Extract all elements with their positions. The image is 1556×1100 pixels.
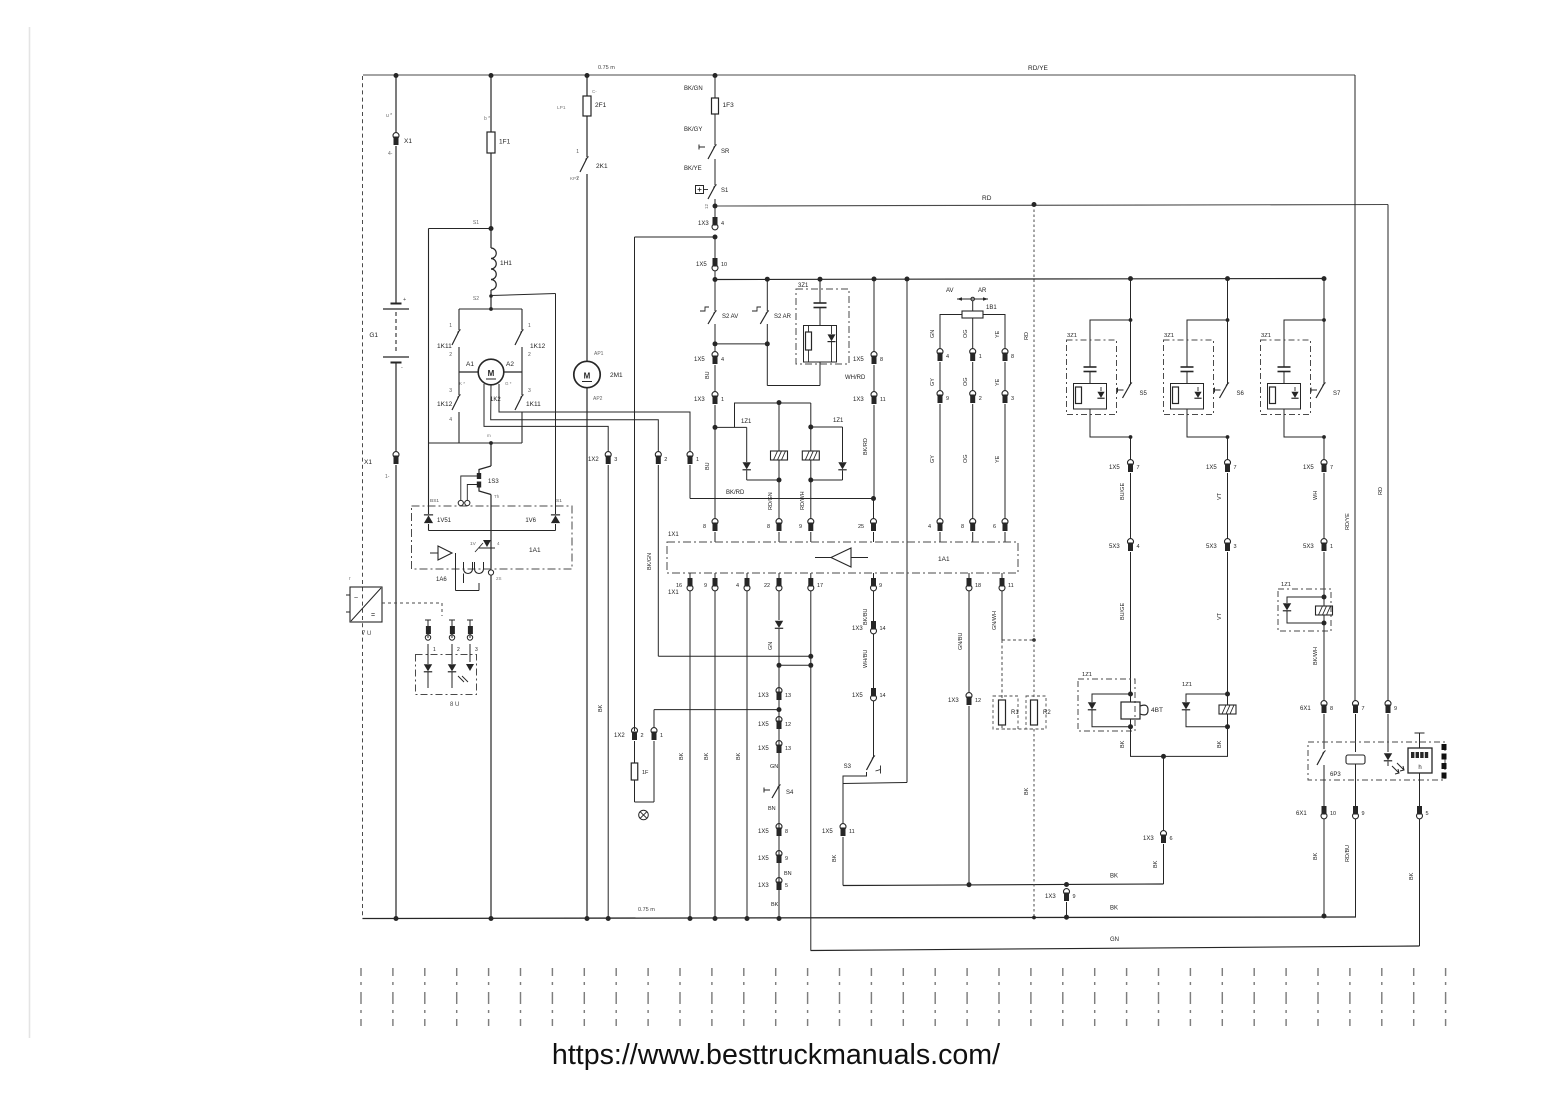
svg-text:R2: R2 [1043,710,1051,716]
svg-text:RD: RD [1378,487,1384,495]
wire 874 to TA1 [873,499,875,520]
svg-text:9: 9 [1362,811,1365,817]
svg-text:AV: AV [946,288,954,294]
wire suppressor bottom link [767,385,820,387]
wire dashed RD drop [1033,205,1035,701]
wire bridge bottom [429,442,523,444]
connector X1 pin2 [393,452,399,458]
svg-text:1Z1: 1Z1 [741,419,752,425]
svg-text:RD/YE: RD/YE [1345,513,1351,530]
svg-text:X1: X1 [404,138,412,145]
diode plug D1 [424,664,432,671]
wire S7 main [1323,279,1325,384]
resistor R2 [1026,696,1046,729]
connector 1X5-8 [871,352,877,358]
svg-text:BS1: BS1 [430,498,439,504]
svg-text:1X5: 1X5 [696,262,707,268]
svg-text:1X3: 1X3 [1045,894,1056,900]
svg-text:RD/GN: RD/GN [768,492,774,510]
svg-text:2S: 2S [496,576,502,581]
horn 1Z1 box [1078,679,1135,731]
wire 1324 to 6P3 [1323,714,1325,749]
node bus S7 [1322,276,1327,281]
wire battery column mid [395,146,397,303]
thyristor 1V51 [428,443,430,514]
wire meter stub top [1419,733,1421,748]
wire S3 to link [843,772,867,784]
sense bushing a [458,500,463,505]
wire relay2 merge [1164,727,1228,757]
switch S7 [1311,389,1317,391]
svg-text:GN: GN [768,642,774,650]
svg-text:1X5: 1X5 [758,746,769,752]
svg-text:1X5: 1X5 [694,357,705,363]
wire brush sense 1 [499,384,690,452]
svg-text:8: 8 [1330,706,1333,712]
svg-text:BU: BU [705,371,711,379]
connector 6X1-7 [1353,701,1359,707]
charge socket 8U box [416,655,477,695]
motor 2M1 [574,361,600,387]
svg-text:BK/YE: BK/YE [684,166,702,172]
svg-text:10: 10 [721,262,727,268]
connector 1X3-11 [871,392,877,398]
svg-text:1: 1 [449,323,452,329]
svg-text:1X5: 1X5 [822,829,833,835]
wire 1S3 sense b [467,485,479,501]
connector 6X1-9b [1355,764,1357,806]
connector 5X3-4 [1128,539,1134,545]
wire 1388 to 6P3 [1387,714,1389,752]
connector 1X5-8b [776,824,782,830]
connector 1X5 s7 [1321,460,1327,466]
wire 1355 to 6P3 [1355,714,1357,752]
svg-text:RD/WH: RD/WH [800,491,806,510]
svg-text:GN: GN [770,764,778,770]
svg-text:BK: BK [1153,860,1159,868]
svg-text:8: 8 [703,524,706,530]
svg-text:2M1: 2M1 [610,372,623,379]
svg-text:1X5: 1X5 [1206,465,1217,471]
wire S7 cap link [1284,320,1324,367]
wire dashed 1002 to R1 [1001,640,1003,700]
node RD junction [713,204,718,209]
wire control bus [715,279,1324,280]
wire armature line A1-A2 [459,371,479,373]
svg-text:1Z1: 1Z1 [1182,682,1192,688]
svg-text:AP1: AP1 [594,351,604,357]
wire 2M1 to bus [586,388,588,919]
svg-text:1Z1: 1Z1 [833,418,844,424]
wire to bus [714,271,716,280]
svg-text:BK/RD: BK/RD [726,490,745,496]
connector 1X5-14 [871,688,876,697]
svg-text:GN/BU: GN/BU [958,633,964,650]
svg-text:3Z1: 3Z1 [1067,333,1077,339]
svg-text:GY: GY [930,455,936,463]
node left branch junction [713,235,718,240]
wire meter to GN [1419,819,1421,946]
svg-text:BK: BK [832,854,838,862]
svg-text:1: 1 [660,733,663,739]
connector 1X1-8 top [712,519,718,525]
wire s7 col mid [1323,473,1325,539]
wire S2AR lower [766,324,768,344]
connector 1X3-13 [776,688,782,694]
wire 1324 to bus [1323,819,1325,916]
svg-text:RD/BU: RD/BU [1345,845,1351,862]
wire S5 bottom link [1090,409,1131,437]
svg-text:WH/RD: WH/RD [845,375,866,381]
connector pot row2 b [970,391,976,397]
svg-text:1X3: 1X3 [758,693,769,699]
svg-text:BK/WH: BK/WH [1313,647,1319,665]
svg-text:3: 3 [475,647,478,653]
node merge [1161,754,1166,759]
wire armature return to bus [490,575,492,919]
wire S2 to 1V6 link [491,294,556,296]
svg-text:BK: BK [1409,872,1415,880]
svg-text:S6: S6 [1237,391,1245,397]
svg-text:b *: b * [484,116,490,122]
connector 1X2-3 [605,452,611,458]
diode 1Z1 left [746,427,748,462]
wire dashed left border [362,76,364,919]
svg-text:7: 7 [1362,706,1365,712]
svg-text:1Z1: 1Z1 [1082,672,1092,678]
connector 6X1-10 [1323,765,1325,806]
connector 1X5-9b [776,851,782,857]
connector bottom 874 [871,578,876,587]
wire below 1F1 [490,153,492,248]
svg-text:12: 12 [975,698,981,704]
connector 1X3-1 [712,392,718,398]
connector 6X1-8 [1321,701,1327,707]
svg-text:KP1: KP1 [570,176,579,181]
resistor 1F lamp [634,741,636,763]
svg-text:2: 2 [528,352,531,358]
wire s5 col mid [1130,473,1132,539]
relay 1Z1 third box [1278,589,1331,631]
connector 1X3-4 [713,217,718,226]
fuse 1F3 [712,98,719,114]
suppressor 3Z1 S5 box [1067,340,1117,415]
wire 1F3 top [714,76,716,99]
wire 715 to TA1 [714,427,716,519]
wire S6 main [1227,279,1229,384]
svg-text:0.75 m: 0.75 m [638,907,655,913]
svg-text:S1: S1 [473,220,479,226]
svg-text:BK/GN: BK/GN [647,553,653,570]
svg-text:12: 12 [785,722,791,728]
node 1F1 top junction [489,73,494,78]
svg-text:9: 9 [704,583,707,589]
svg-text:BK: BK [679,752,685,760]
relay coil 1Z1 right [810,427,812,451]
zener 3Z1 V [831,326,833,335]
wire 2K1 to 2M1 [586,174,588,362]
svg-text:4: 4 [1137,544,1140,550]
connector pot row3 a [937,519,943,525]
suppressor 3Z1 box [796,289,849,364]
wire relay right to TA1 [810,480,812,519]
node bus S2AV [713,277,718,282]
wire lamp feed drop [634,237,636,731]
relay coil 5K1 [1219,705,1236,714]
LED 6P3 [1384,753,1392,760]
svg-text:1V6: 1V6 [525,518,536,524]
wire 907 through TA1 [906,542,908,573]
node 779 lamp tap [777,707,782,712]
connector 5X3 s7 [1321,539,1327,545]
wire 907 upper [906,279,908,542]
svg-text:1K11: 1K11 [437,343,452,350]
svg-text:4: 4 [946,354,949,360]
svg-text:3: 3 [449,388,452,394]
wire merge down [1163,756,1165,831]
svg-text:8: 8 [880,357,883,363]
svg-text:WH: WH [1313,491,1319,500]
svg-text:WH/BU: WH/BU [863,650,869,668]
svg-text:RD: RD [982,195,992,202]
diode plug D2 [448,664,456,671]
wire 1S3 sense a [461,476,479,500]
connector bottom 1002 [1000,578,1005,587]
node BKRD [871,496,876,501]
svg-text:11: 11 [1008,583,1014,589]
svg-text:1V: 1V [470,541,477,547]
wire 907 lower [906,573,908,783]
switch 6P3 [1317,752,1324,765]
node 810 tap b [808,663,813,668]
zener 3Z1 S7 [1294,387,1296,391]
svg-text:16: 16 [676,583,682,589]
svg-text:1X5: 1X5 [1303,465,1314,471]
switch SR [699,146,705,148]
wire field to S2 node [490,290,492,309]
svg-text:3Z1: 3Z1 [798,283,809,289]
svg-text:S1: S1 [721,188,729,194]
svg-text:9: 9 [785,856,788,862]
svg-text:YE: YE [995,378,1001,386]
connector pot row1 c [1002,349,1008,355]
wire S2 link [715,343,767,345]
svg-text:1: 1 [433,647,436,653]
svg-text:1H1: 1H1 [500,260,512,267]
svg-text:4: 4 [928,524,931,530]
svg-text:1: 1 [576,149,579,155]
svg-text:12: 12 [704,203,709,209]
svg-text:1: 1 [528,323,531,329]
diode 1Z1 right [842,427,844,462]
amplifier symbol [831,548,851,567]
connector pot row2 c [1002,391,1008,397]
svg-text:M: M [584,372,591,381]
wire 690 to bus [689,573,691,578]
svg-text:BK: BK [1110,874,1118,880]
svg-text:6X1: 6X1 [1296,811,1307,817]
svg-text:6: 6 [993,524,996,530]
wire S1 to RD node [714,199,716,206]
svg-text:11: 11 [880,397,886,403]
connector 1X2-1 [687,452,693,458]
wire s6 col low [1227,552,1229,694]
svg-text:1X1: 1X1 [668,590,679,596]
fold marks [1442,744,1447,750]
connector 1X5-13 [776,741,782,747]
wire s6 col mid [1227,473,1229,539]
wire 874 top [873,279,875,352]
svg-text:OG: OG [963,454,969,463]
svg-text:1X2: 1X2 [614,733,625,739]
transformer 1A6 [464,569,473,574]
wire armature return into box [490,495,492,570]
wire 715 to bus [714,573,716,578]
current sensor 1S3 [479,466,491,473]
svg-text:A2: A2 [506,361,514,368]
suppressor RC inner box [804,326,837,363]
svg-text:4: 4 [449,417,452,423]
wire S3 drop [842,784,844,802]
wire 1002 down [1001,591,1003,640]
wire 969 down a [968,591,970,693]
capacitor 3Z1 S5 [1084,366,1097,368]
wire horn merge [1131,727,1164,757]
contactor 1K12 lower-left [458,372,460,395]
svg-text:6: 6 [1170,836,1173,842]
wire S5 main [1130,279,1132,384]
svg-text:13: 13 [785,746,791,752]
connector 1X5 s6 [1225,460,1231,466]
wire S5 col down [1130,437,1132,460]
svg-text:1B1: 1B1 [986,305,997,311]
svg-text:3Z1: 3Z1 [1164,333,1174,339]
svg-text:22: 22 [764,583,770,589]
node top-left junction [394,73,399,78]
connector pot row3 b [970,519,976,525]
svg-text:1K12: 1K12 [437,401,453,408]
svg-text:YE: YE [995,330,1001,338]
svg-text:BK/RD: BK/RD [863,438,869,455]
thyristor 1V6 [555,294,557,515]
fuse 2F1 [583,96,591,116]
svg-text:9: 9 [1073,894,1076,900]
svg-text:S4: S4 [786,790,794,796]
wire relay right bottom [811,479,843,481]
node relay3 bottom [1322,621,1327,626]
node dashed bus [1032,916,1036,920]
wire pot long legs [939,404,941,519]
connector plug pins [425,619,431,621]
wire 690 to BKRD corner [689,465,691,499]
connector pot row2 a [937,391,943,397]
resistor 3Z1 S7 [1270,387,1276,404]
node field tap [489,226,494,231]
wire 874 to BKRD [873,405,875,499]
wire 1067 to bus [1066,902,1068,917]
svg-text:2: 2 [449,352,452,358]
node horn top [1128,692,1133,697]
svg-text:1X3: 1X3 [698,221,709,227]
wire 874 low b [873,634,875,688]
svg-text:4: 4 [736,583,739,589]
wire pot into TA1 [939,532,941,542]
wire to 1X5-10 [714,237,716,258]
connector 6X1-5 [1419,773,1421,806]
meter unit 6P3 box [1308,742,1445,780]
connector 1X5-4 [712,352,718,358]
wire pot left leg [940,315,962,350]
svg-text:BK/BU: BK/BU [863,608,869,625]
wire field bypass vertical [428,229,430,444]
wire S7 col down [1323,437,1325,460]
wire s7 col low [1323,552,1325,597]
svg-text:1X2: 1X2 [588,457,599,463]
svg-text:17: 17 [817,583,823,589]
svg-text:10: 10 [1330,811,1336,817]
node horn bottom [1128,724,1133,729]
wire lamp feed left [635,236,716,238]
suppressor inner box S5 [1074,384,1107,410]
wire bridge top [459,308,522,310]
svg-text:1X3: 1X3 [853,397,864,403]
capacitor 3Z1 S7 [1278,366,1291,368]
controller 1A1 box [667,542,1018,573]
connector pot row1 a [937,349,943,355]
wire 658 column [657,465,659,656]
svg-text:25: 25 [858,524,864,530]
svg-text:7: 7 [1137,465,1140,471]
svg-text:BK: BK [736,752,742,760]
svg-text:BN: BN [768,806,776,812]
suppressor 3Z1 S6 box [1164,340,1214,415]
svg-text:5X3: 5X3 [1109,544,1120,550]
node S2AR out [765,341,770,346]
svg-text:1: 1 [1330,544,1333,550]
svg-text:BU/GE: BU/GE [1120,603,1126,620]
wire pot center leg [972,311,974,318]
wire 747 to bus [746,573,748,578]
svg-text:BK: BK [1120,740,1126,748]
svg-text:2: 2 [641,733,644,739]
svg-text:1F1: 1F1 [499,139,511,146]
svg-text:14: 14 [880,626,886,632]
fold ruler [361,968,1446,1026]
pot 1B1 wiper [957,298,988,300]
wire S2AV lower [714,324,716,344]
connector 1X3-6 [1161,831,1167,837]
svg-text:3: 3 [528,388,531,394]
svg-text:1X5: 1X5 [852,693,863,699]
svg-text:S2 AV: S2 AV [722,314,738,320]
connector bottom 969 [967,578,972,587]
svg-text:3Z1: 3Z1 [1261,333,1271,339]
wire brush sense 3 [484,384,608,452]
svg-text:GN/WH: GN/WH [992,611,998,630]
diode horn [1092,694,1131,702]
node 810 tap a [808,654,813,659]
wire S2AV upper [714,280,716,312]
svg-text:7: 7 [1234,465,1237,471]
svg-text:S5: S5 [1140,391,1148,397]
connector pot row3 c [1002,519,1008,525]
svg-text:BK: BK [1217,740,1223,748]
node S2AV out [713,341,718,346]
svg-text:3: 3 [1011,396,1014,402]
wire 658 link [658,655,811,657]
svg-text:S1: S1 [556,498,562,504]
svg-text:2F1: 2F1 [595,102,607,109]
